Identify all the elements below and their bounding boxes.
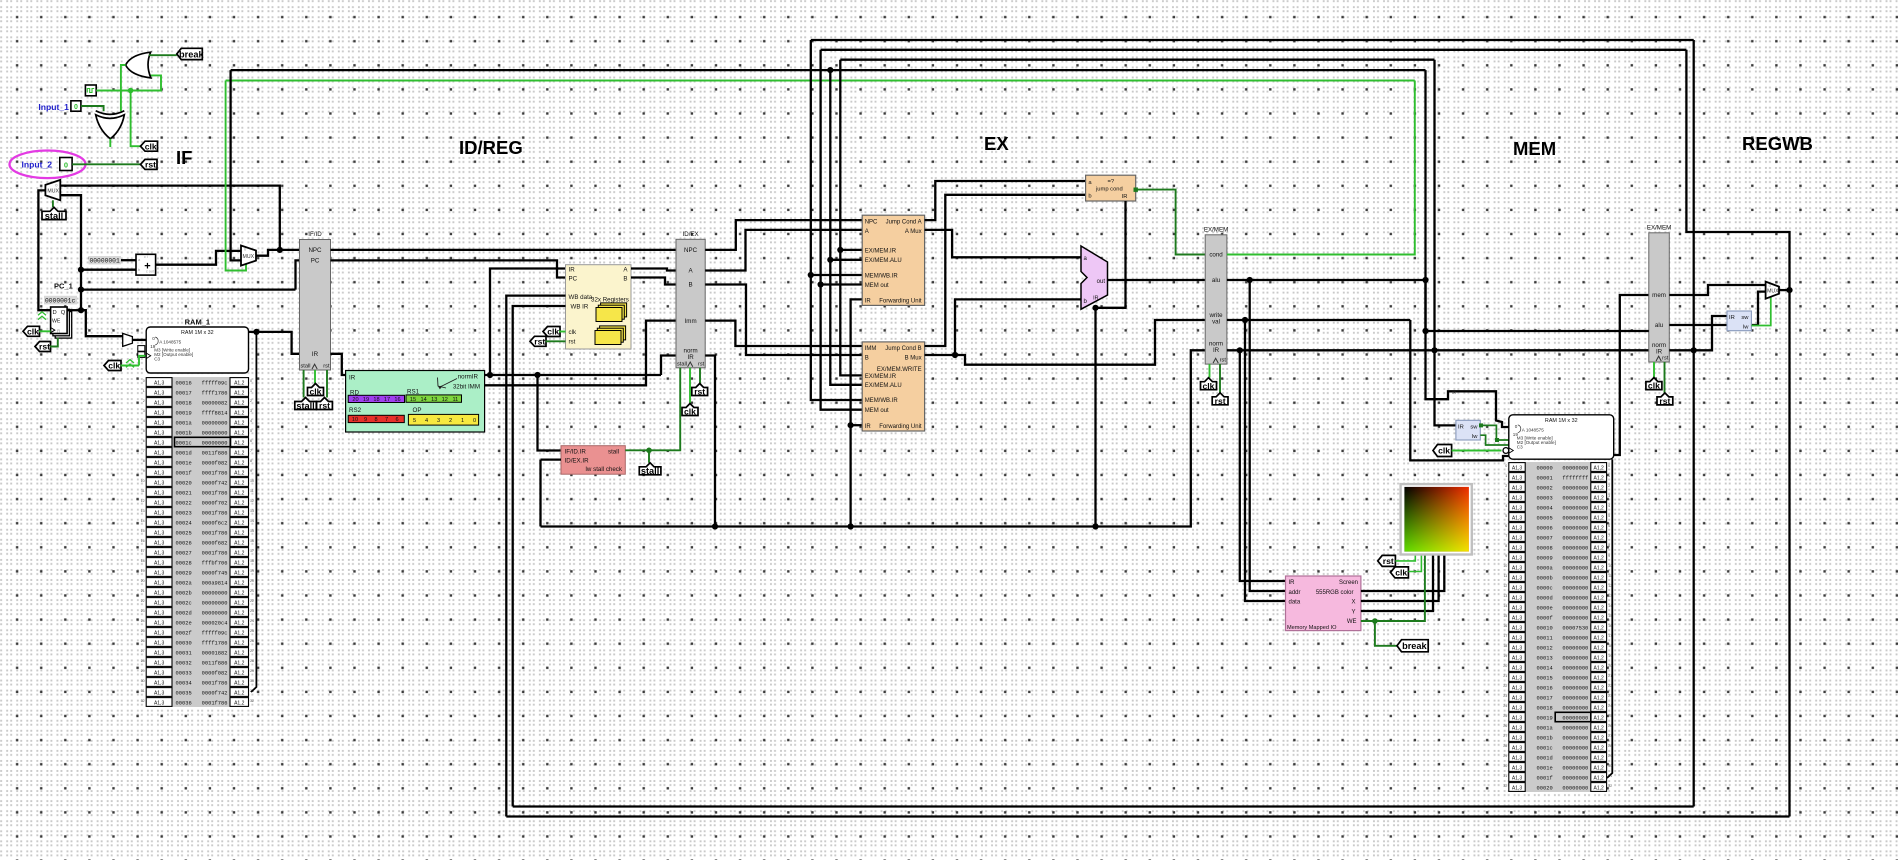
svg-text:A1,2: A1,2 [1594, 775, 1605, 781]
svg-text:B: B [865, 356, 869, 362]
svg-text:23: 23 [250, 609, 254, 613]
svg-text:A1,3: A1,3 [154, 450, 165, 456]
svg-text:clk: clk [547, 327, 559, 337]
svg-text:Jump Cond B: Jump Cond B [885, 346, 921, 352]
svg-text:A1,2: A1,2 [1594, 545, 1605, 551]
svg-text:REGWB: REGWB [1742, 133, 1813, 154]
svg-text:EX/MEM: EX/MEM [1647, 224, 1671, 231]
svg-text:ID/EX: ID/EX [683, 231, 699, 238]
svg-text:24: 24 [250, 619, 254, 623]
svg-text:A1,3: A1,3 [154, 430, 165, 436]
svg-text:A1,3: A1,3 [1512, 585, 1523, 591]
svg-text:A1,3: A1,3 [154, 540, 165, 546]
wire ID/EX clk stub [689, 368, 691, 404]
svg-text:0: 0 [250, 379, 252, 383]
wire lw to result mux select [1751, 297, 1770, 325]
svg-text:A1,2: A1,2 [1594, 745, 1605, 751]
wire EX/MEM clk stub [1209, 364, 1211, 378]
svg-text:A1,2: A1,2 [1594, 515, 1605, 521]
svg-text:RAM 1M x 32: RAM 1M x 32 [181, 330, 214, 336]
decoder IR sw/lw (WB) [1727, 311, 1751, 331]
svg-text:00002: 00002 [1537, 485, 1553, 491]
wire normIR bus MEM stage [1227, 349, 1649, 351]
svg-text:00000000: 00000000 [1562, 735, 1588, 741]
svg-text:555RGB color: 555RGB color [1316, 590, 1354, 596]
svg-text:A1,2: A1,2 [1594, 605, 1605, 611]
svg-text:A1,3: A1,3 [154, 570, 165, 576]
svg-text:A1,2: A1,2 [1594, 665, 1605, 671]
svg-text:WB IR: WB IR [571, 304, 589, 311]
svg-text:A1,2: A1,2 [234, 640, 245, 646]
clock generator CLK1 [85, 85, 96, 96]
wire net MEM/WB.IR feedback (top bus L1) [811, 39, 1694, 41]
tunnel clk at WB register [1646, 378, 1662, 391]
svg-text:A1,2: A1,2 [234, 660, 245, 666]
svg-text:3: 3 [437, 418, 440, 424]
svg-text:0001f: 0001f [176, 470, 192, 476]
svg-text:12: 12 [442, 397, 448, 403]
svg-text:rst: rst [39, 342, 50, 352]
svg-text:00032: 00032 [176, 660, 192, 666]
tunnel rst at PC [35, 342, 51, 352]
tunnel clk at IF/ID [308, 384, 324, 397]
junction IR at Forwarding Unit B [848, 422, 854, 428]
svg-text:A1,2: A1,2 [234, 610, 245, 616]
svg-text:jump cond: jump cond [1095, 187, 1123, 193]
svg-text:0002f: 0002f [176, 630, 192, 636]
svg-text:0011f886: 0011f886 [202, 660, 228, 666]
svg-text:clk: clk [569, 329, 577, 336]
svg-text:10: 10 [352, 417, 358, 423]
svg-text:0002b: 0002b [176, 590, 192, 596]
svg-text:A1,2: A1,2 [1594, 735, 1605, 741]
svg-text:16: 16 [394, 397, 400, 403]
svg-text:A1,2: A1,2 [1594, 505, 1605, 511]
svg-text:29: 29 [1503, 754, 1507, 758]
svg-text:11: 11 [452, 397, 458, 403]
svg-text:clk: clk [27, 326, 39, 336]
svg-text:A1,3: A1,3 [154, 520, 165, 526]
svg-text:00000000: 00000000 [1562, 785, 1588, 791]
svg-text:A1,2: A1,2 [234, 520, 245, 526]
svg-text:26: 26 [250, 639, 254, 643]
memory RAM_2 (data RAM 1M x 32) [1509, 415, 1614, 459]
svg-text:13: 13 [141, 509, 145, 513]
svg-text:NPC: NPC [865, 220, 878, 226]
svg-text:IR: IR [865, 299, 872, 305]
svg-text:stall: stall [45, 211, 63, 221]
pipeline register MEM/WB [1647, 224, 1671, 362]
svg-text:0: 0 [64, 161, 68, 170]
svg-text:14: 14 [1503, 604, 1507, 608]
svg-text:6: 6 [250, 439, 252, 443]
ALU (EX stage) [1081, 246, 1108, 309]
svg-text:rst: rst [569, 339, 576, 346]
svg-text:14: 14 [141, 519, 145, 523]
svg-text:A1,3: A1,3 [1512, 725, 1523, 731]
wire A Mux output to ALU a [925, 230, 1081, 257]
svg-text:A1,3: A1,3 [154, 500, 165, 506]
junction stall net [646, 448, 652, 454]
svg-text:Screen: Screen [1339, 580, 1358, 586]
svg-text:A1,3: A1,3 [154, 480, 165, 486]
svg-text:0000f082: 0000f082 [202, 670, 228, 676]
wire WB data return bus (vertical) [506, 296, 565, 817]
svg-text:A1,3: A1,3 [1512, 715, 1523, 721]
svg-text:5: 5 [143, 429, 145, 433]
wire IR: IF/ID to instruction decode [331, 354, 346, 375]
svg-text:IR: IR [1452, 390, 1456, 395]
svg-text:00000000: 00000000 [202, 440, 228, 446]
svg-text:00008: 00008 [1537, 545, 1553, 551]
svg-text:A1,3: A1,3 [154, 700, 165, 706]
svg-text:00010: 00010 [1537, 625, 1553, 631]
wire IF/ID stall stub [303, 370, 305, 398]
wire EX/MEM.IR drop to Forwarding Unit B [840, 60, 862, 376]
svg-text:NPC: NPC [684, 247, 698, 254]
svg-text:00000000: 00000000 [1562, 775, 1588, 781]
svg-text:0: 0 [1515, 424, 1518, 429]
svg-text:0001a: 0001a [1537, 725, 1554, 731]
wire WB IR return bus (vertical) [513, 306, 566, 807]
svg-text:clk: clk [310, 387, 322, 397]
svg-text:A1,3: A1,3 [1512, 555, 1523, 561]
svg-text:EX/MEM.IR: EX/MEM.IR [865, 374, 897, 380]
svg-text:A1,2: A1,2 [1594, 695, 1605, 701]
svg-text:A1,3: A1,3 [154, 560, 165, 566]
svg-text:IR: IR [1458, 424, 1464, 430]
svg-text:16: 16 [250, 539, 254, 543]
svg-text:15: 15 [250, 529, 254, 533]
svg-text:ffff1786: ffff1786 [202, 390, 228, 396]
svg-text:0000f682: 0000f682 [202, 540, 228, 546]
wire WB clk stub [1653, 362, 1655, 378]
svg-text:A1,2: A1,2 [1594, 685, 1605, 691]
mux NPC MUX (IF) [241, 246, 256, 266]
svg-text:Forwarding Unit: Forwarding Unit [879, 424, 922, 430]
wire IF/ID.IR to lw stall check [538, 375, 562, 451]
wire IR up to ALU [1094, 308, 1096, 527]
svg-text:00013: 00013 [1537, 655, 1553, 661]
svg-text:00000000: 00000000 [1562, 765, 1588, 771]
svg-text:A1,2: A1,2 [234, 400, 245, 406]
pipeline register EX/MEM [1204, 226, 1228, 364]
svg-text:A1,2: A1,2 [1594, 785, 1605, 791]
svg-text:A1,2: A1,2 [234, 430, 245, 436]
wire MEM/WB.IR feedback riser / WB IR return [1693, 40, 1695, 807]
junction WB result [1786, 287, 1792, 293]
svg-text:A1,3: A1,3 [154, 510, 165, 516]
svg-text:rst: rst [323, 364, 330, 370]
svg-text:0001f786: 0001f786 [202, 680, 228, 686]
svg-text:00009: 00009 [1537, 555, 1553, 561]
svg-text:A1,2: A1,2 [234, 550, 245, 556]
OR gate break (output faces left) [126, 52, 151, 78]
svg-text:4: 4 [1608, 504, 1610, 508]
wire ID/EX.IR into stall check [541, 458, 562, 460]
svg-text:9: 9 [143, 469, 145, 473]
svg-text:00003: 00003 [1537, 495, 1553, 501]
svg-text:28: 28 [141, 659, 145, 663]
svg-text:A1,2: A1,2 [234, 600, 245, 606]
svg-text:A1,3: A1,3 [1512, 645, 1523, 651]
svg-text:A1,3: A1,3 [154, 630, 165, 636]
svg-text:A1,2: A1,2 [1594, 765, 1605, 771]
svg-text:fffbf706: fffbf706 [202, 560, 228, 566]
svg-text:16: 16 [141, 539, 145, 543]
wire RAM_2 data rail (right of table) [1607, 459, 1612, 778]
wire clk to RAM_2 [1452, 450, 1502, 452]
svg-text:A1,3: A1,3 [154, 470, 165, 476]
svg-text:0000f742: 0000f742 [202, 480, 228, 486]
wire WB rst stub [1664, 362, 1666, 393]
svg-text:0001b: 0001b [176, 430, 192, 436]
svg-text:14: 14 [250, 519, 254, 523]
svg-text:0: 0 [1608, 464, 1610, 468]
svg-text:00000001: 00000001 [90, 258, 120, 265]
svg-text:0: 0 [74, 104, 78, 111]
wire WB alu to result mux in1 [1669, 292, 1765, 325]
svg-text:A1,3: A1,3 [154, 600, 165, 606]
svg-text:00035: 00035 [176, 690, 192, 696]
peripheral Screen (Memory Mapped IO) [1286, 576, 1361, 631]
svg-text:A1,3: A1,3 [1512, 745, 1523, 751]
svg-text:rst: rst [1659, 396, 1670, 406]
svg-text:A1,2: A1,2 [1594, 645, 1605, 651]
svg-text:A1,3: A1,3 [154, 650, 165, 656]
svg-text:A 1048575: A 1048575 [1522, 427, 1544, 432]
svg-text:9: 9 [1505, 554, 1507, 558]
wire alu to WB register [1426, 330, 1649, 332]
svg-text:A1,2: A1,2 [234, 420, 245, 426]
svg-text:A1,2: A1,2 [1594, 715, 1605, 721]
wire jump cond result to EX/MEM cond [1136, 190, 1206, 255]
svg-text:12: 12 [141, 499, 145, 503]
svg-text:ffff1786: ffff1786 [202, 640, 228, 646]
svg-text:5: 5 [1505, 514, 1507, 518]
svg-text:PC: PC [569, 276, 578, 283]
wire WB normIR to IR sw/lw [1669, 316, 1727, 350]
svg-text:EX/MEM.WRITE: EX/MEM.WRITE [877, 367, 922, 373]
display screen preview (RGB gradient) [1401, 484, 1472, 554]
wire WB result feedback riser [1686, 50, 1789, 817]
svg-text:+: + [144, 261, 150, 273]
svg-text:9: 9 [364, 417, 367, 423]
wire RAM_2 D output to WB mem [1614, 295, 1649, 455]
svg-text:D: D [53, 310, 57, 316]
RAM_1 contents table [141, 377, 254, 707]
svg-text:15: 15 [410, 397, 416, 403]
svg-text:EX/MEM.ALU: EX/MEM.ALU [865, 258, 902, 264]
svg-text:A1,3: A1,3 [1512, 485, 1523, 491]
svg-text:IR: IR [1093, 296, 1098, 302]
svg-text:29: 29 [141, 669, 145, 673]
wire splitter to RAM_1 A input [132, 339, 146, 341]
svg-text:0001f: 0001f [1537, 775, 1553, 781]
wire Jump Cond B output to comparator b [925, 195, 1086, 346]
wire normIR up to Registers IR input [490, 269, 566, 376]
svg-text:B: B [689, 282, 693, 289]
wire cond to green feedback bus [1227, 81, 1415, 255]
svg-text:3: 3 [250, 409, 252, 413]
svg-text:12: 12 [250, 499, 254, 503]
comparator jump cond (=?) [1086, 175, 1138, 201]
tunnel clk at Registers [543, 327, 560, 337]
svg-text:19: 19 [1503, 654, 1507, 658]
svg-text:MEM: MEM [1513, 138, 1556, 159]
svg-text:A1,2: A1,2 [1594, 525, 1605, 531]
wire A to Jump Cond A [705, 230, 862, 271]
svg-text:00000000: 00000000 [1562, 555, 1588, 561]
constant 00000001 [89, 256, 122, 265]
svg-text:32: 32 [141, 699, 145, 703]
svg-text:A1,3: A1,3 [1512, 685, 1523, 691]
svg-text:00000000: 00000000 [1562, 605, 1588, 611]
svg-text:IR: IR [1729, 315, 1735, 321]
svg-text:A1,2: A1,2 [234, 500, 245, 506]
svg-text:00006: 00006 [1537, 525, 1553, 531]
wire clock to clk tunnel [131, 91, 142, 147]
wire NPC to Jump Cond A [705, 220, 862, 250]
wire stall mux output to PC D input [38, 190, 50, 310]
register file 32x Registers [566, 265, 632, 349]
svg-text:0002a: 0002a [176, 580, 193, 586]
svg-text:00031: 00031 [176, 650, 192, 656]
svg-text:00000000: 00000000 [1562, 675, 1588, 681]
wire Screen X to preview [1361, 555, 1439, 602]
svg-text:A1,2: A1,2 [1594, 555, 1605, 561]
svg-text:0000d: 0000d [1537, 595, 1553, 601]
svg-text:Q: Q [61, 310, 66, 316]
svg-text:23: 23 [1503, 694, 1507, 698]
svg-text:lw: lw [1743, 325, 1749, 331]
svg-text:A1,2: A1,2 [234, 380, 245, 386]
pipeline register IF/ID [300, 231, 331, 370]
svg-text:A1,3: A1,3 [154, 580, 165, 586]
svg-text:EX/MEM.IR: EX/MEM.IR [865, 248, 897, 254]
svg-text:A1,3: A1,3 [154, 660, 165, 666]
svg-text:00000000: 00000000 [1562, 465, 1588, 471]
svg-text:00000000: 00000000 [202, 590, 228, 596]
svg-text:A1,2: A1,2 [234, 570, 245, 576]
svg-text:1: 1 [1608, 474, 1610, 478]
wire result mux output [1779, 289, 1790, 291]
svg-text:A1,2: A1,2 [234, 490, 245, 496]
svg-text:00000000: 00000000 [202, 430, 228, 436]
tunnel break (MEM) [1397, 640, 1428, 652]
svg-text:20: 20 [250, 579, 254, 583]
junction MEM-out at y284 [818, 281, 824, 287]
svg-text:00026: 00026 [176, 540, 192, 546]
svg-text:00000000: 00000000 [1562, 755, 1588, 761]
svg-text:c i: c i [144, 255, 148, 259]
svg-text:ffffffff: ffffffff [1562, 475, 1588, 481]
svg-text:00018: 00018 [1537, 705, 1553, 711]
pin square sw [1479, 423, 1483, 427]
svg-text:22: 22 [1503, 684, 1507, 688]
junction WB normIR feedback [1691, 347, 1697, 353]
svg-text:A1,2: A1,2 [234, 690, 245, 696]
svg-text:alu: alu [1212, 277, 1221, 284]
wire stall to tunnel [648, 450, 650, 463]
svg-text:A1,2: A1,2 [234, 390, 245, 396]
svg-text:IR: IR [312, 351, 319, 358]
wire PC Q output [67, 309, 81, 311]
svg-text:0: 0 [473, 418, 476, 424]
wire cond feedback to NPC mux select [226, 81, 246, 271]
svg-text:00000000: 00000000 [1562, 585, 1588, 591]
svg-text:00022: 00022 [176, 500, 192, 506]
input pin Input_1 [38, 101, 81, 112]
wire net EX/MEM.ALU feedback (top bus L4) [231, 69, 1426, 71]
svg-text:00017: 00017 [1537, 695, 1553, 701]
svg-text:out: out [1097, 279, 1106, 285]
svg-text:A1,3: A1,3 [154, 380, 165, 386]
wire Registers B to ID/EX [631, 278, 676, 285]
svg-text:A Mux: A Mux [905, 229, 922, 235]
wire OR output down to XOR input [121, 65, 126, 111]
svg-text:25: 25 [141, 629, 145, 633]
svg-text:00018: 00018 [176, 400, 192, 406]
svg-text:C3: C3 [1517, 444, 1523, 449]
XOR gate (points down) [96, 111, 125, 139]
wire alu result bus [1227, 279, 1426, 281]
wire sw to RAM_2 write enable [1480, 425, 1509, 440]
svg-text:IR: IR [688, 354, 695, 361]
svg-text:A1,2: A1,2 [234, 510, 245, 516]
svg-text:data: data [1289, 600, 1301, 606]
svg-text:7: 7 [385, 417, 388, 423]
svg-text:rst: rst [694, 387, 705, 397]
svg-text:00000000: 00000000 [1562, 635, 1588, 641]
svg-text:00020: 00020 [176, 480, 192, 486]
wire stall-check tap of normIR bus [539, 460, 541, 527]
svg-text:21: 21 [141, 589, 145, 593]
wire clk to Registers [559, 331, 566, 333]
wire WB-result drop to Forwarding Unit B MEM out [821, 50, 863, 410]
svg-text:17: 17 [384, 397, 390, 403]
wire Screen WE to preview [1361, 555, 1425, 622]
clock arrows RAM_1 [126, 360, 134, 368]
svg-text:ID/EX.IR: ID/EX.IR [565, 458, 590, 465]
svg-text:clk: clk [1648, 381, 1660, 391]
svg-text:00000000: 00000000 [1562, 495, 1588, 501]
svg-text:6: 6 [395, 417, 398, 423]
wire PC hold loop to stall mux in1 [60, 195, 81, 310]
svg-text:0000c: 0000c [1537, 585, 1553, 591]
svg-text:IR: IR [1122, 194, 1128, 200]
svg-text:EX/MEM.ALU: EX/MEM.ALU [865, 383, 902, 389]
svg-text:alu: alu [1655, 322, 1664, 329]
wire IR to jump cond [1096, 201, 1126, 308]
svg-text:00000000: 00000000 [1562, 565, 1588, 571]
wire Input_2 to rst tunnel [72, 163, 142, 165]
wire alu to RAM_2 address [1426, 70, 1509, 427]
svg-text:00000000: 00000000 [1562, 695, 1588, 701]
svg-text:8: 8 [143, 459, 145, 463]
svg-text:A1,3: A1,3 [1512, 755, 1523, 761]
svg-text:Memory Mapped IO: Memory Mapped IO [1287, 625, 1337, 631]
svg-text:4: 4 [1505, 504, 1507, 508]
wire net EX/MEM.IR feedback (top bus L3) [840, 59, 1434, 61]
junction normIR to Registers IR [487, 372, 493, 378]
junction clock net [128, 88, 134, 94]
junction alu net to WB [1422, 328, 1428, 334]
svg-text:00005: 00005 [1537, 515, 1553, 521]
wire rst to Registers [546, 340, 566, 342]
wire adder sum to NPC mux in0 [156, 251, 241, 265]
wire stall net to ID/EX [649, 368, 680, 451]
